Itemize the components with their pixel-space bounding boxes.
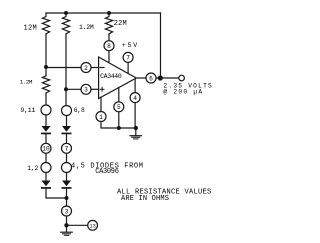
pin 3b circle (62, 206, 72, 216)
diode D1 col1 (42, 126, 51, 132)
wire pin4 down to bus (134, 103, 136, 128)
ground bottom (66, 225, 68, 232)
wire col1 mid (45, 67, 47, 76)
svg-text:12M: 12M (24, 25, 38, 33)
wire node A to pin2 (46, 67, 81, 69)
wire output apex to pin6 (136, 77, 146, 79)
wire pin3 to op-amp (91, 88, 98, 90)
node A junction (44, 65, 48, 69)
pin 1,2 circle (41, 163, 51, 173)
pin 6 circle (146, 73, 156, 83)
pin 2 circle (81, 63, 91, 73)
svg-text:1.2M: 1.2M (79, 24, 94, 31)
wire col1 upper (45, 35, 47, 68)
wire pin5 stub up (118, 88, 120, 102)
pin 1 circle (96, 112, 106, 122)
wire pin4 stub up (134, 79, 136, 92)
svg-text:CA3440: CA3440 (100, 73, 122, 80)
pin 6,8 circle (62, 106, 72, 116)
wire col2 (66, 154, 68, 163)
svg-text:1,2: 1,2 (27, 165, 38, 172)
wire col2 bottom (66, 189, 68, 206)
node ground junction (64, 223, 68, 227)
wire col1 (45, 154, 47, 163)
pin 13 circle (88, 220, 98, 230)
op-amp U1 CA3440 triangle (99, 57, 137, 99)
svg-text:4: 4 (133, 95, 137, 102)
node bus pin5 junction (117, 126, 121, 130)
wire col2 upper (65, 35, 67, 106)
svg-text:13: 13 (89, 224, 95, 230)
svg-text:2: 2 (84, 65, 88, 72)
wire pin1 stub up (100, 97, 102, 111)
pin 4,5 circle (62, 163, 72, 173)
wire right rail (160, 13, 162, 78)
resistor 1.2M col2 (62, 13, 69, 35)
svg-text:@ 200 µA: @ 200 µA (163, 89, 203, 96)
diode D2 col2 (62, 181, 71, 187)
svg-text:22M: 22M (114, 20, 127, 28)
wire pin1 down to bus (101, 122, 136, 128)
diode D1 col2 (62, 126, 71, 132)
svg-text:7: 7 (65, 146, 69, 153)
pin 9,11 circle (41, 105, 51, 115)
svg-text:10: 10 (42, 146, 50, 153)
wire node B to pin3 (66, 88, 81, 90)
pin 4 circle (130, 93, 140, 103)
wire pin8 stub (108, 51, 110, 63)
wire col2 (66, 173, 68, 181)
node output junction (158, 75, 163, 80)
svg-text:8: 8 (107, 43, 111, 50)
pin 3 circle (81, 84, 91, 94)
wire pin5 down to bus (118, 112, 120, 128)
svg-text:6,8: 6,8 (74, 107, 85, 114)
svg-text:CA3096: CA3096 (95, 168, 119, 176)
node B junction (64, 87, 68, 91)
node junction top col3 (107, 11, 111, 15)
pin 7 circle (123, 52, 133, 62)
svg-text:1.2M: 1.2M (20, 79, 33, 86)
pin 10 circle (41, 143, 51, 153)
svg-text:+5V: +5V (122, 42, 139, 49)
op-amp plus input mark (100, 88, 104, 90)
wire col1 to pin 9,11 (45, 94, 47, 106)
resistor 1.2M left (42, 76, 49, 94)
node bus ground junction (134, 126, 138, 130)
svg-text:9,11: 9,11 (20, 107, 35, 114)
pin 7b circle (62, 143, 72, 153)
pin 8 circle (104, 41, 114, 51)
diode D2 col1 (42, 181, 51, 187)
wire to ground node (66, 216, 68, 225)
svg-text:1: 1 (99, 114, 103, 121)
wire col1 (45, 173, 47, 181)
svg-text:ARE IN OHMS: ARE IN OHMS (121, 195, 169, 203)
wire to pin13 (67, 224, 88, 226)
wire col2 (66, 116, 68, 126)
svg-text:6: 6 (149, 75, 153, 82)
wire pin6 to terminal (156, 77, 179, 79)
svg-text:3: 3 (65, 208, 69, 215)
terminal output open circle (179, 75, 185, 81)
resistor 22M (105, 13, 112, 35)
node bottom join junction (65, 196, 69, 200)
resistor 12M (42, 13, 49, 35)
op-amp minus input mark (100, 67, 104, 69)
pin 5 circle (114, 102, 124, 112)
wire 22M to pin8 (108, 35, 110, 41)
wire pin2 to op-amp (91, 67, 98, 69)
ground op-amp bus (135, 128, 137, 136)
wire top rail (46, 12, 161, 14)
node junction top col2 (64, 11, 68, 15)
wire pin7 stub (127, 63, 129, 74)
wire col1 (45, 115, 47, 126)
svg-text:5: 5 (117, 104, 121, 111)
svg-text:3: 3 (84, 87, 88, 94)
svg-text:7: 7 (126, 55, 130, 62)
wire col1 bottom to join (46, 189, 67, 198)
